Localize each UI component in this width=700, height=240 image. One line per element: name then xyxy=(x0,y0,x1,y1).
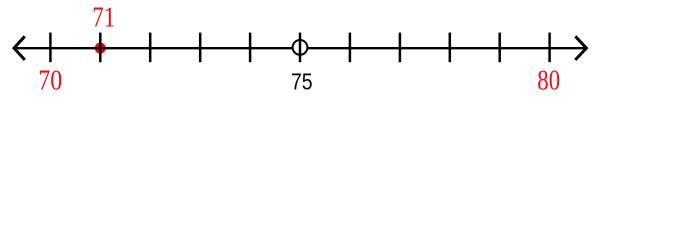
tick 75 xyxy=(299,33,302,63)
svg-text:70: 70 xyxy=(38,65,62,96)
tick 77 xyxy=(399,33,402,63)
tick 76 xyxy=(349,33,352,63)
left arrowhead xyxy=(14,36,25,60)
tick 80 xyxy=(548,33,551,63)
tick 79 xyxy=(498,33,501,63)
tick 70 xyxy=(49,33,52,63)
filled point at 71 xyxy=(95,43,106,54)
tick 72 xyxy=(149,33,152,63)
number line xyxy=(14,47,586,49)
tick 74 xyxy=(249,33,252,63)
svg-text:71: 71 xyxy=(92,2,115,33)
tick 71 xyxy=(99,33,102,63)
tick 78 xyxy=(449,33,452,63)
open circle at 75 xyxy=(293,40,308,55)
tick 73 xyxy=(199,33,202,63)
svg-text:75: 75 xyxy=(291,68,313,94)
right arrowhead xyxy=(575,36,586,60)
svg-text:80: 80 xyxy=(537,65,560,96)
